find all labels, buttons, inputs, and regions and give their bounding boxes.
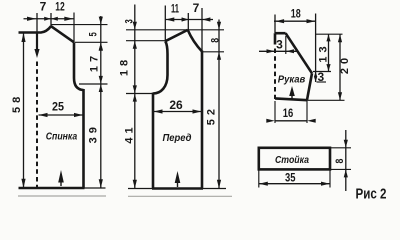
svg-text:18: 18 (118, 56, 130, 76)
sleeve top edge (275, 32, 286, 35)
svg-text:35: 35 (285, 170, 296, 184)
svg-text:8: 8 (209, 35, 221, 43)
svg-text:11: 11 (171, 2, 179, 16)
scan artifact echo lines under hems (18, 195, 232, 197)
extension line at shoulder peak (50, 13, 52, 26)
tick at armhole bottom level (79, 83, 108, 85)
tick at sleeve top level (316, 33, 343, 35)
svg-text:5: 5 (88, 30, 100, 37)
tick at cuff level (308, 99, 345, 101)
svg-text:Стойка: Стойка (275, 154, 309, 166)
extension sleeve right (to corner) (315, 14, 317, 83)
svg-text:25: 25 (52, 99, 64, 113)
dim 35 line (259, 183, 330, 185)
svg-text:7: 7 (40, 0, 47, 14)
top dimension line 7 / 12 (24, 18, 74, 20)
svg-text:52: 52 (206, 105, 218, 125)
svg-text:39: 39 (88, 123, 100, 143)
tick at peak level (51, 24, 108, 26)
svg-text:7: 7 (193, 1, 200, 15)
sleeve cap diagonal (286, 33, 312, 73)
svg-text:17: 17 (88, 52, 100, 72)
right side dim line (5 /17 /39) (100, 16, 102, 188)
svg-text:3: 3 (276, 38, 283, 52)
front hem (152, 187, 203, 190)
tick at shoulder end level (75, 41, 108, 43)
svg-text:3: 3 (317, 70, 324, 84)
collar stand rectangle (259, 148, 330, 170)
svg-text:16: 16 (283, 106, 294, 120)
sleeve fold edge solid part (274, 33, 277, 44)
tick for small 3 (317, 81, 327, 83)
svg-text:18: 18 (291, 7, 301, 21)
sleeve grain arrow (289, 86, 295, 99)
front grain arrow (175, 171, 181, 187)
tick at front neck-base level (203, 51, 225, 53)
dimension 25 line (39, 114, 84, 116)
dim 35 extensions (259, 171, 330, 188)
sleeve small dim 3 leader (259, 50, 298, 52)
tick at front shoulder-end level (126, 40, 165, 42)
back armhole (74, 42, 84, 90)
sleeve dim 20 line (339, 34, 341, 100)
tick at sleeve corner level (313, 71, 331, 73)
extension at cap start (285, 36, 287, 54)
svg-text:26: 26 (169, 98, 183, 112)
svg-text:Спинка: Спинка (46, 131, 78, 143)
hem tick piece1 (19, 187, 106, 189)
front center edge (201, 51, 204, 189)
dim 8 ticks (331, 148, 351, 170)
sleeve dim 16 (275, 101, 307, 123)
hem tick piece2 (128, 188, 226, 190)
svg-text:3: 3 (124, 17, 136, 24)
svg-text:Рис 2: Рис 2 (356, 186, 387, 201)
svg-text:12: 12 (55, 0, 65, 14)
front top dimension line 11 / 7 (165, 19, 213, 21)
svg-text:Рукав: Рукав (278, 73, 306, 85)
front neckline (188, 30, 202, 52)
extension line at shoulder end (73, 13, 75, 43)
svg-text:13: 13 (317, 42, 329, 62)
sleeve dim 13 line (328, 34, 330, 71)
long tick at front peak level (126, 29, 224, 31)
right dim line (8 /52) (218, 20, 220, 189)
tick at front armhole-bottom level (126, 93, 153, 95)
svg-text:20: 20 (339, 54, 351, 74)
svg-text:Перед: Перед (163, 132, 192, 144)
back shoulder seam (51, 26, 74, 42)
svg-text:8: 8 (334, 156, 346, 164)
left dim line (3 /18 /41) (134, 5, 136, 189)
extension line at center fold (36, 13, 38, 33)
svg-text:41: 41 (124, 123, 136, 143)
sleeve underarm edge (307, 73, 312, 100)
extension sleeve left top (274, 15, 276, 34)
extension at front center edge (201, 8, 203, 51)
extension at front shoulder end (164, 6, 166, 42)
front armhole (153, 41, 168, 93)
sleeve cuff edge (275, 98, 308, 100)
back hem (19, 187, 85, 190)
front side seam (152, 93, 155, 189)
back side seam (82, 89, 85, 188)
dimension 26 line (154, 111, 202, 113)
front shoulder seam (165, 30, 187, 41)
extension at front peak (187, 13, 189, 30)
dimension 58 line (23, 33, 25, 188)
back top neck edge (19, 26, 52, 32)
back grain arrow (58, 170, 64, 186)
svg-text:58: 58 (11, 93, 23, 113)
back center fold dashed line (36, 62, 38, 188)
sleeve fold edge dashed part (274, 49, 276, 100)
sleeve dim 18 line (274, 20, 316, 22)
back center fold top arrow (36, 33, 38, 51)
dim 8 line (345, 130, 347, 191)
